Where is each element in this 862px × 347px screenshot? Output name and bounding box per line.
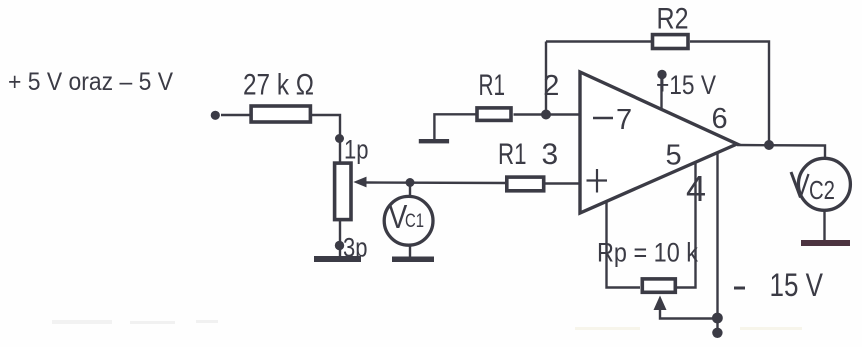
node 3p dot <box>335 241 344 250</box>
source Vc2 circle <box>798 158 850 210</box>
svg-text:R1: R1 <box>479 69 506 102</box>
wire tap to Vc1 <box>409 183 411 196</box>
svg-text:5: 5 <box>666 139 682 171</box>
wire wiper to non-inverting line <box>366 181 506 184</box>
wire pin1 to Rp left <box>607 202 641 288</box>
terminal -15V dot <box>712 328 722 338</box>
non-inverting plus marker <box>587 169 608 193</box>
input terminal dot <box>211 111 220 120</box>
resistor 27k <box>251 106 310 122</box>
ground bar under Vc2 <box>801 240 850 246</box>
resistor R1 top <box>477 108 511 121</box>
resistor R2 <box>653 35 689 49</box>
node Vc1 tap dot <box>406 178 415 187</box>
svg-text:3: 3 <box>542 138 559 171</box>
node output dot <box>764 140 774 150</box>
wire R1 bottom to + input <box>545 182 580 184</box>
svg-text:+15 V: +15 V <box>656 70 716 100</box>
svg-text:C2: C2 <box>809 175 835 205</box>
node 1p dot <box>335 134 344 143</box>
wire pot bottom to ground <box>339 221 341 256</box>
label Vc2 <box>791 172 801 198</box>
node 2 dot <box>541 110 551 120</box>
svg-text:1p: 1p <box>344 135 369 165</box>
scan artifact smudges <box>52 320 218 324</box>
wire Rp wiper to -15V rail <box>660 309 718 319</box>
node -15V dot <box>712 313 723 324</box>
svg-text:6: 6 <box>712 103 728 135</box>
ground bar at 3p <box>314 256 361 262</box>
wire feedback top right <box>690 42 769 146</box>
svg-text:R2: R2 <box>657 3 689 36</box>
svg-text:+ 5 V oraz – 5 V: + 5 V oraz – 5 V <box>8 68 173 96</box>
potentiometer Rp body <box>642 279 675 292</box>
wire pin5 to Rp right <box>677 163 696 288</box>
ground bar at R1 input <box>419 139 449 143</box>
svg-text:C1: C1 <box>405 211 424 232</box>
wire +15V to pin 7 <box>660 75 662 110</box>
wire feedback top left <box>546 40 651 42</box>
wire R1 to inverting input <box>514 113 581 115</box>
svg-text:15 V: 15 V <box>770 267 824 303</box>
wire Vc2 to ground <box>823 211 825 240</box>
supply +15V dot <box>657 70 666 79</box>
wire input to R 27k <box>221 114 250 116</box>
Rp wiper arrowhead <box>654 296 667 311</box>
wire ground to R1 <box>434 114 477 139</box>
svg-text:7: 7 <box>616 104 632 136</box>
svg-text:27 k Ω: 27 k Ω <box>243 69 314 102</box>
wire R 27k to pot 1p <box>312 115 341 162</box>
inverting input minus marker <box>593 117 613 119</box>
wire Vc1 to ground <box>409 247 411 258</box>
pot wiper arrowhead <box>353 177 366 188</box>
resistor R1 bottom <box>507 177 544 191</box>
svg-text:R1: R1 <box>498 138 527 171</box>
ground bar under Vc1 <box>392 257 434 263</box>
potentiometer P (1p-3p) body <box>335 163 351 220</box>
wire pin4 to -15V <box>716 153 718 333</box>
label -15 V minus <box>734 287 745 290</box>
source Vc1 circle <box>384 196 433 245</box>
wire feedback up from node 2 <box>545 42 547 115</box>
wire output <box>737 145 825 158</box>
op-amp U1 triangle <box>580 72 737 213</box>
svg-text:Rp = 10 k: Rp = 10 k <box>597 238 699 268</box>
